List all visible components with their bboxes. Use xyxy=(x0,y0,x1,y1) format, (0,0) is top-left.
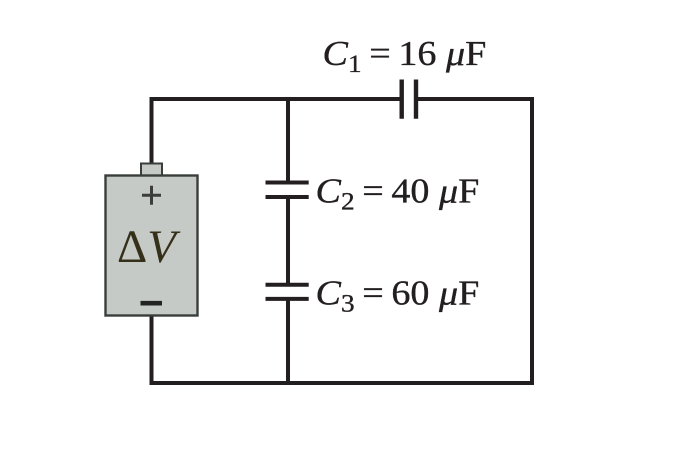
value label C1 = 16 μF xyxy=(323,33,487,77)
battery − symbol xyxy=(141,301,163,306)
svg-text:C1 = 16 μF: C1 = 16 μF xyxy=(323,33,487,77)
value label C3 = 60 μF xyxy=(316,273,480,317)
wire left side, lower segment (battery negative terminal to bottom-left corner) xyxy=(150,315,154,383)
svg-text:C3 = 60 μF: C3 = 60 μF xyxy=(316,273,480,317)
battery + symbol xyxy=(142,186,161,205)
wire top side, right segment (C1 right plate to top-right corner) xyxy=(416,97,534,101)
capacitor C2 xyxy=(266,183,309,198)
battery label ΔV xyxy=(117,221,181,273)
wire middle branch, upper segment (top node to C2) xyxy=(286,97,290,183)
wire bottom side xyxy=(150,381,535,385)
capacitor C1 xyxy=(402,80,416,119)
wire left side, upper segment (top-left corner to battery positive terminal) xyxy=(150,97,154,165)
svg-text:C2 = 40 μF: C2 = 40 μF xyxy=(316,171,480,215)
wire middle branch, lower segment (C3 to bottom node) xyxy=(286,299,290,383)
svg-text:ΔV: ΔV xyxy=(117,221,181,273)
battery positive terminal cap xyxy=(141,164,162,177)
value label C2 = 40 μF xyxy=(316,171,480,215)
wire top side, left segment (top-left corner to C1 left plate) xyxy=(150,97,402,101)
capacitor C3 xyxy=(266,285,309,299)
battery ΔV body xyxy=(106,176,198,316)
wire right side xyxy=(530,97,534,385)
wire middle branch, segment between C2 and C3 xyxy=(286,197,290,285)
